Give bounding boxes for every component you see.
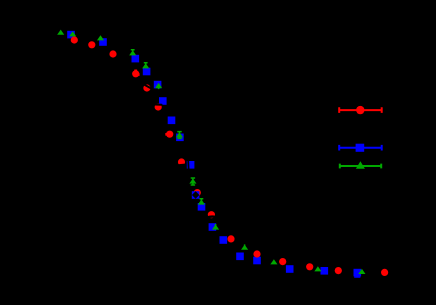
- red circle R5: [143, 84, 150, 91]
- blue error cap below B18: [354, 273, 360, 277]
- green triangle G13: [314, 266, 321, 271]
- blue square B13: [236, 253, 244, 261]
- green triangle G9: [198, 199, 205, 204]
- blue square B1: [67, 31, 75, 39]
- green triangle G10: [212, 224, 219, 229]
- red circle R2: [88, 41, 95, 48]
- green triangle G14: [358, 269, 365, 274]
- blue square B2: [99, 38, 107, 46]
- blue square B11: [209, 223, 217, 231]
- green triangle G5: [142, 63, 149, 68]
- legend entry blue: [339, 145, 382, 151]
- red circle R3: [109, 50, 116, 57]
- green triangle G8: [189, 178, 196, 183]
- blue square B5: [154, 81, 162, 89]
- blue square B6: [159, 97, 167, 105]
- blue square B17: [354, 269, 362, 277]
- red circle R16: [381, 269, 388, 276]
- black curve notches: [144, 85, 215, 218]
- green triangle G3: [97, 35, 104, 40]
- green triangle G11: [241, 245, 248, 250]
- blue square B14: [253, 257, 261, 265]
- blue square B7: [168, 117, 176, 125]
- blue square B4: [143, 68, 151, 76]
- green triangle G1: [57, 30, 64, 35]
- green triangle G2: [69, 31, 76, 36]
- green triangle G7: [176, 132, 183, 137]
- red circle R4: [132, 70, 139, 77]
- red circle R14: [306, 263, 313, 270]
- red circle R6: [155, 103, 162, 110]
- red circle R11: [227, 235, 234, 242]
- red error caps: [134, 70, 167, 135]
- green triangle G12: [270, 259, 277, 264]
- red circle R8: [178, 158, 185, 165]
- green triangle G4: [129, 50, 136, 55]
- blue square B3: [132, 55, 140, 63]
- blue square B9: [187, 161, 195, 169]
- blue square B15: [286, 265, 294, 273]
- blue square B8: [176, 134, 184, 142]
- green triangle G6: [155, 83, 162, 88]
- red circle R7: [166, 131, 173, 138]
- blue square B16: [321, 267, 329, 275]
- red circle R13: [279, 258, 286, 265]
- red circle R10: [208, 211, 215, 218]
- red circle R9: [194, 189, 201, 196]
- blue square B10 with black hole: [192, 191, 200, 199]
- red circle R1: [71, 36, 78, 43]
- blue square B10: [198, 203, 206, 211]
- legend entry green: [340, 164, 381, 169]
- blue square B12: [220, 236, 228, 244]
- red circle R12: [253, 250, 260, 257]
- green error bars: [131, 50, 245, 248]
- red circle R15: [335, 267, 342, 274]
- legend entry red: [339, 107, 382, 113]
